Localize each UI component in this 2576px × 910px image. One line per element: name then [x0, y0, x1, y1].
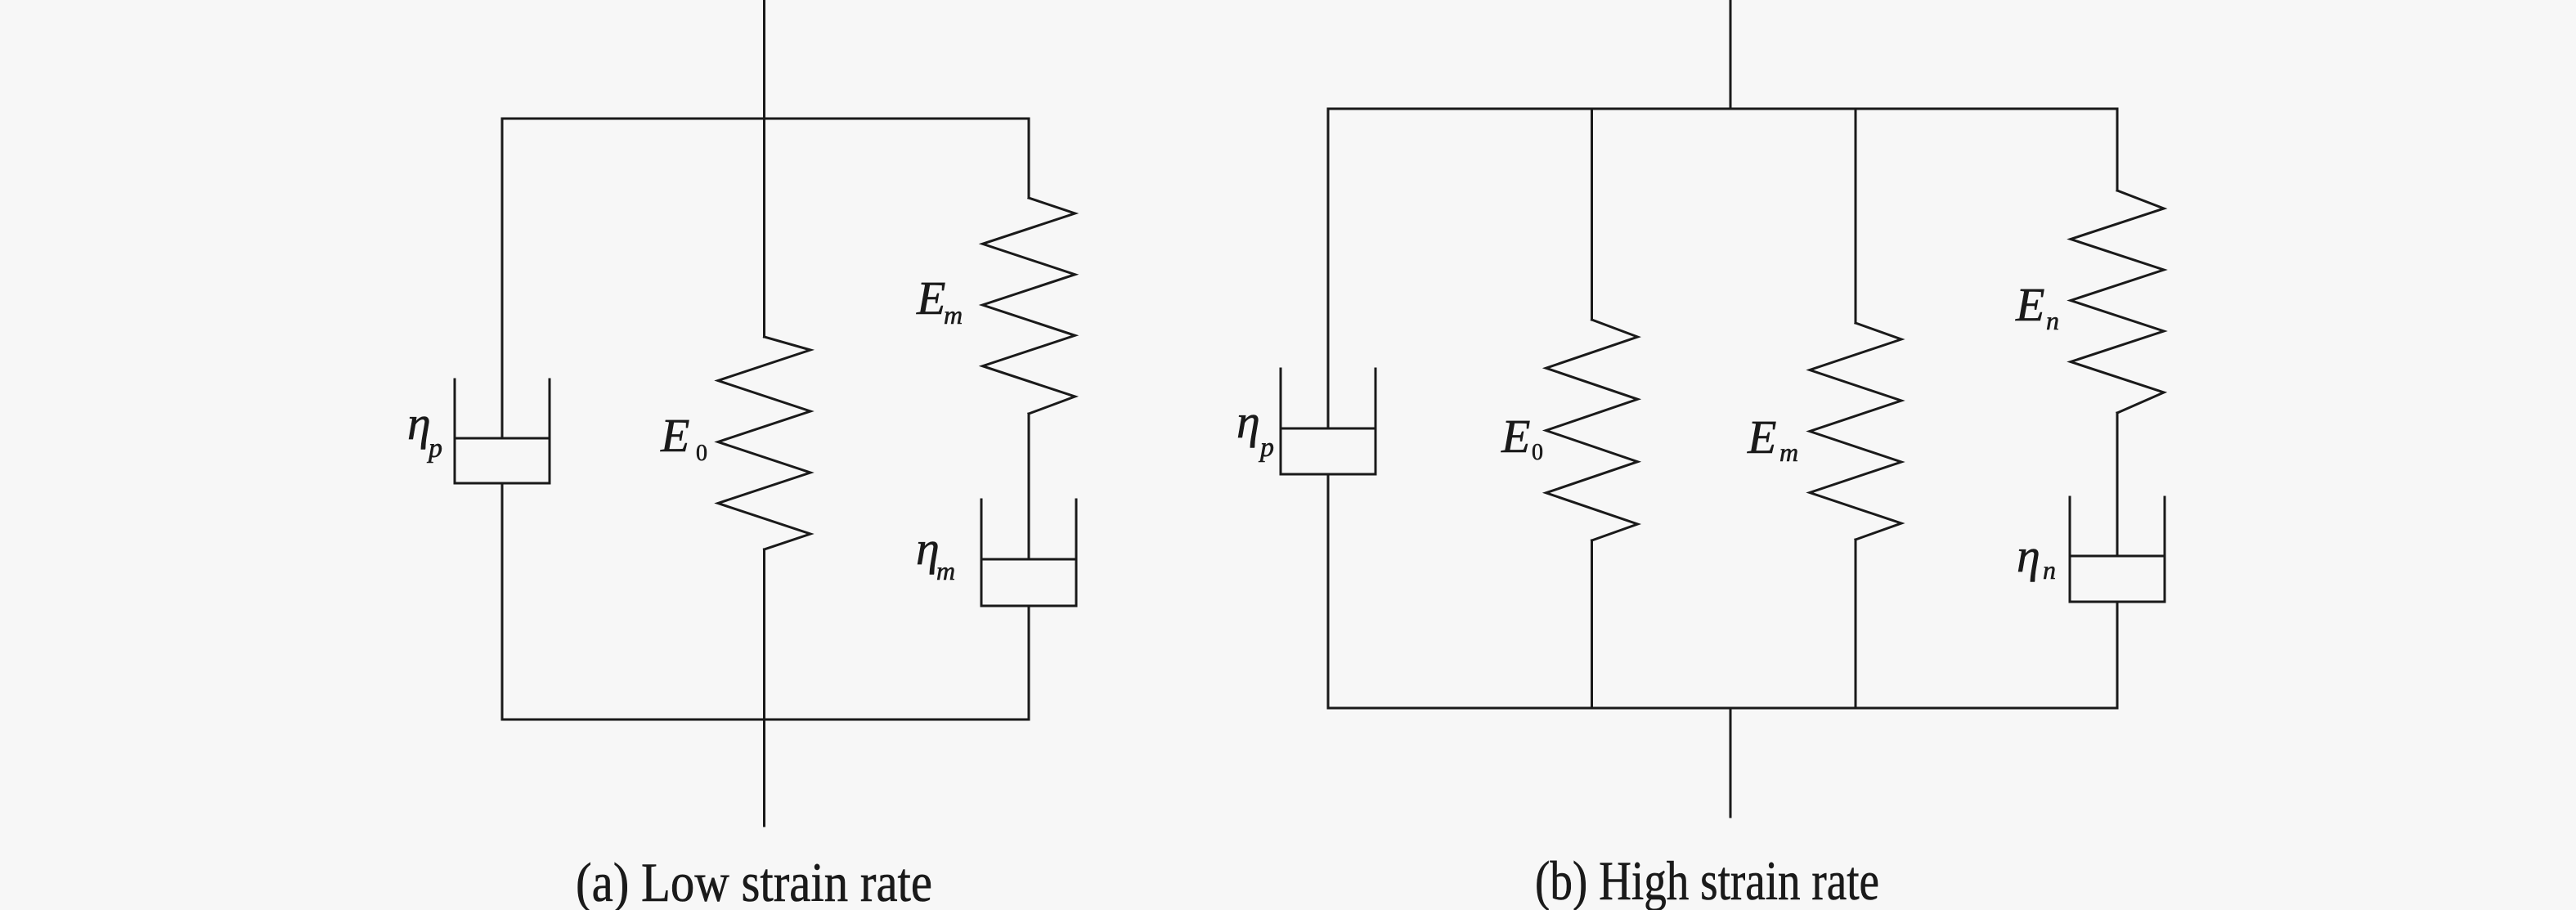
wire left branch lower rod (a): [501, 483, 504, 719]
dashpot eta_p cup (a): [455, 379, 550, 483]
dashpot eta_p cup (b): [1281, 369, 1376, 474]
svg-text:E: E: [1501, 410, 1530, 463]
svg-text:E: E: [660, 409, 689, 462]
wire bottom rail (a): [502, 719, 1029, 721]
wire middle branch lower (a): [763, 549, 765, 719]
wire top rail (a): [502, 118, 1029, 120]
svg-text:E: E: [916, 271, 945, 325]
spring E0 (b): [1546, 320, 1638, 540]
wire top feed (b): [1730, 0, 1732, 109]
spring Em (b): [1810, 323, 1901, 540]
svg-text:m: m: [944, 300, 963, 329]
spring Em (a): [983, 198, 1075, 414]
wire branch1 lower rod (b): [1327, 474, 1330, 708]
wire branch4 upper (b): [2116, 109, 2119, 191]
svg-text:p: p: [1259, 433, 1274, 463]
dashpot eta_p piston plate (a): [455, 437, 550, 440]
wire right branch lower rod (a): [1028, 606, 1030, 719]
svg-text:n: n: [2046, 306, 2059, 335]
svg-text:η: η: [407, 397, 431, 450]
wire bottom rail (b): [1328, 707, 2117, 710]
dashpot eta_m piston plate (a): [981, 558, 1076, 561]
wire right branch middle rod (a): [1028, 414, 1030, 559]
svg-text:n: n: [2043, 555, 2056, 585]
spring En (b): [2071, 191, 2164, 413]
svg-text:0: 0: [696, 441, 707, 466]
svg-text:(a) Low strain rate: (a) Low strain rate: [576, 851, 932, 910]
wire branch4 middle rod (b): [2116, 413, 2119, 556]
wire branch2 upper (b): [1591, 109, 1593, 320]
svg-text:η: η: [1236, 395, 1260, 448]
wire bottom feed (b): [1730, 708, 1732, 817]
svg-text:p: p: [427, 433, 442, 464]
wire bottom feed (a): [763, 719, 765, 826]
wire branch3 upper (b): [1855, 109, 1857, 323]
dashpot eta_n piston plate (b): [2070, 555, 2165, 558]
wire top feed (a): [763, 0, 765, 119]
svg-text:E: E: [1747, 410, 1776, 464]
wire branch1 upper rod (b): [1327, 109, 1330, 428]
wire middle branch upper (a): [763, 119, 765, 337]
dashpot eta_m cup (a): [981, 500, 1076, 606]
svg-text:η: η: [2017, 529, 2040, 582]
wire branch3 lower (b): [1855, 540, 1857, 708]
svg-text:0: 0: [1532, 440, 1543, 465]
wire top rail (b): [1328, 108, 2117, 110]
wire right branch upper (a): [1028, 119, 1030, 198]
wire branch2 lower (b): [1591, 540, 1593, 708]
svg-text:m: m: [936, 556, 955, 585]
spring E0 (a): [718, 337, 810, 549]
svg-text:(b) High strain rate: (b) High strain rate: [1535, 849, 1879, 910]
dashpot eta_p piston plate (b): [1281, 428, 1376, 430]
dashpot eta_n cup (b): [2070, 497, 2165, 602]
wire left branch upper rod (a): [501, 119, 504, 438]
wire branch4 lower rod (b): [2116, 602, 2119, 708]
svg-text:E: E: [2015, 278, 2044, 331]
svg-text:m: m: [1779, 437, 1798, 467]
